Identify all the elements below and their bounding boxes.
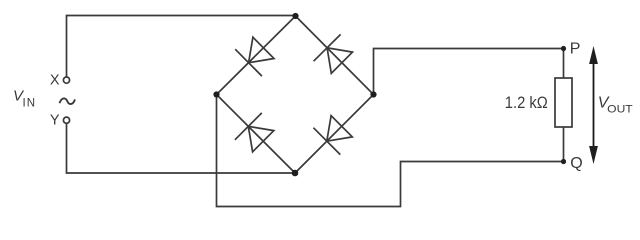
svg-text:X: X — [50, 73, 60, 89]
svg-text:P: P — [570, 41, 581, 58]
svg-text:1.2 kΩ: 1.2 kΩ — [505, 93, 548, 112]
svg-text:OUT: OUT — [607, 103, 633, 115]
svg-text:IN: IN — [23, 98, 37, 110]
svg-text:Q: Q — [570, 155, 582, 172]
svg-text:Y: Y — [50, 113, 60, 129]
